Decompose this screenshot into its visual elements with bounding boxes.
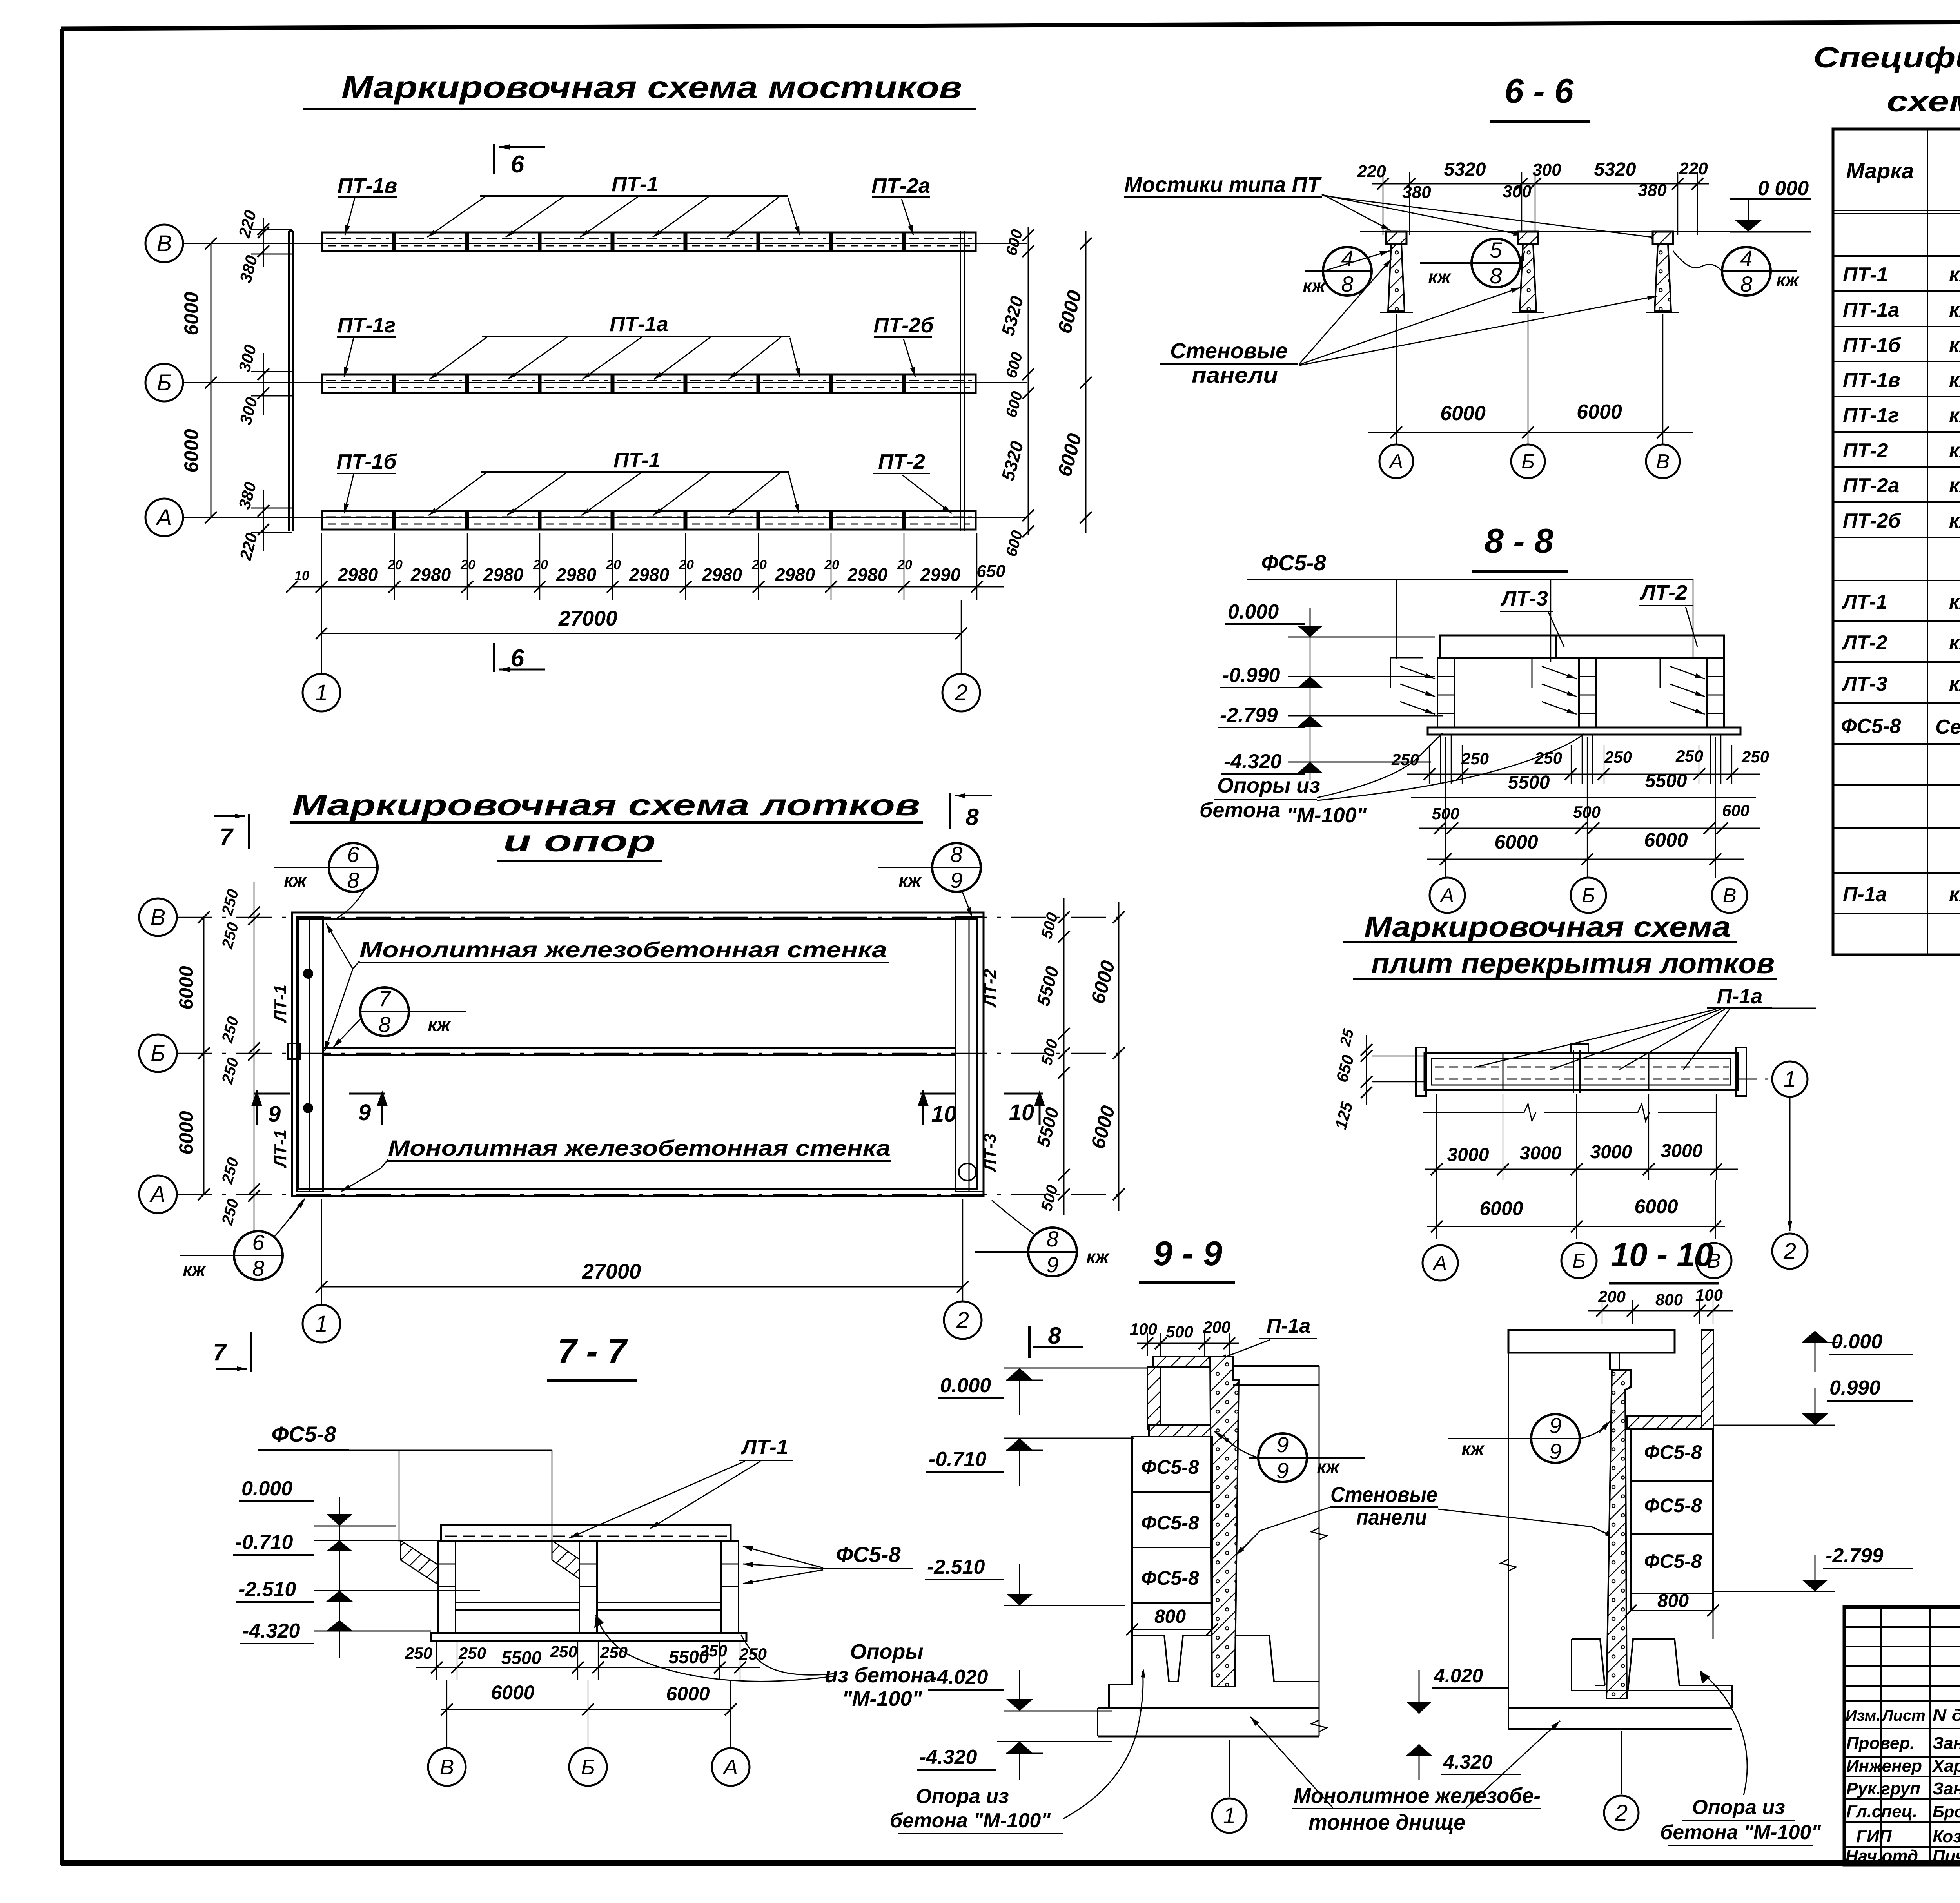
level -0.710 (9-9) bbox=[926, 1438, 1134, 1486]
svg-text:200: 200 bbox=[1598, 1287, 1626, 1306]
svg-text:Б: Б bbox=[1521, 450, 1535, 473]
label Монолитная железобетонная стенка (lower) bbox=[341, 1136, 891, 1192]
svg-text:9: 9 bbox=[268, 1101, 281, 1127]
svg-text:6000: 6000 bbox=[175, 966, 197, 1009]
label П-1а with leaders (plit schema) bbox=[1474, 985, 1816, 1070]
table row ПТ-2 bbox=[1843, 439, 1960, 462]
beams between walls (7-7) bbox=[456, 1602, 721, 1610]
svg-text:ЛТ-1: ЛТ-1 bbox=[740, 1435, 788, 1459]
stepped foundation (9-9) bbox=[1098, 1629, 1319, 1736]
wall on axis Б with ФС5-8 blocks (section 8-8) bbox=[1532, 658, 1596, 727]
grid axis В (mostiki plan) bbox=[145, 225, 1027, 262]
svg-text:ПТ-1а: ПТ-1а bbox=[610, 312, 668, 336]
svg-text:6000: 6000 bbox=[1494, 831, 1538, 853]
svg-text:ЛТ-2: ЛТ-2 bbox=[1639, 581, 1687, 604]
svg-text:380: 380 bbox=[1638, 181, 1667, 200]
dims 100/500/200 (9-9 top) bbox=[1130, 1318, 1239, 1356]
section marks 10-10 (on plan) bbox=[918, 1090, 1045, 1127]
label ПТ-1а (row Б) with leaders bbox=[429, 312, 800, 379]
svg-text:600: 600 bbox=[1722, 801, 1749, 820]
svg-text:6000: 6000 bbox=[175, 1111, 197, 1154]
svg-text:ПТ-2б: ПТ-2б bbox=[1843, 510, 1901, 532]
svg-text:бетона: бетона bbox=[1200, 798, 1280, 822]
wall on axis В (section 7-7) bbox=[438, 1541, 456, 1633]
svg-text:200: 200 bbox=[1203, 1318, 1230, 1336]
grid circles А Б В (plit schema) bbox=[1423, 1245, 1458, 1281]
svg-text:кж: кж bbox=[1776, 270, 1799, 290]
level 0.000 (9-9) bbox=[938, 1368, 1152, 1415]
detail circle 5/8 (middle, section 6-6) bbox=[1420, 238, 1525, 288]
svg-text:кж - 25: кж - 25 bbox=[1949, 404, 1960, 427]
level -0.990 (8-8) bbox=[1220, 664, 1435, 688]
title: Маркировочная схема плит перекрытия лотков bbox=[1343, 911, 1777, 980]
middle dividing wall (lotki plan) bbox=[288, 1043, 955, 1059]
grid circles А Б В (section 8-8) bbox=[1430, 878, 1465, 913]
svg-text:Нач.отд: Нач.отд bbox=[1846, 1847, 1918, 1866]
svg-text:Маркировочная схема: Маркировочная схема bbox=[1364, 911, 1731, 943]
svg-text:Пичахчи: Пичахчи bbox=[1933, 1847, 1960, 1866]
support posts below floor (section 8-8) bbox=[1441, 735, 1721, 784]
svg-text:Опоры: Опоры bbox=[850, 1640, 923, 1664]
dim 27000 (lotki plan bottom) bbox=[316, 1199, 969, 1305]
svg-text:2: 2 bbox=[1615, 1800, 1628, 1826]
svg-text:250: 250 bbox=[600, 1643, 628, 1662]
svg-text:ЛТ-2: ЛТ-2 bbox=[1841, 631, 1887, 654]
plank row at axis Б (ПТ plates) bbox=[322, 374, 976, 393]
label Опоры из бетона М-100 (7-7) bbox=[594, 1615, 935, 1711]
foundation plate (section 7-7) bbox=[431, 1633, 746, 1641]
level 4.320 flag left (10-10) bbox=[1406, 1744, 1521, 1780]
dim row 250 pairs (section 8-8) bbox=[1391, 745, 1769, 784]
svg-text:П-1а: П-1а bbox=[1843, 883, 1887, 906]
dim 300/300 left of row Б bbox=[235, 343, 292, 426]
svg-text:500: 500 bbox=[1166, 1322, 1193, 1341]
column axis 1 circle (9-9) bbox=[1212, 1740, 1247, 1833]
svg-text:А: А bbox=[722, 1755, 738, 1779]
hatched wedge middle wall (7-7) bbox=[552, 1540, 579, 1579]
svg-text:100: 100 bbox=[1695, 1286, 1723, 1304]
svg-text:В: В bbox=[1723, 884, 1737, 907]
grid circles А Б В (section 6-6) bbox=[1379, 444, 1413, 478]
wall on axis А with ФС5-8 blocks (section 8-8) bbox=[1390, 658, 1454, 727]
table row ПТ-2а bbox=[1843, 474, 1960, 497]
right wall and lotok bottom (10-10), hatched bbox=[1627, 1330, 1713, 1429]
section mark 6 (top) bbox=[494, 144, 545, 178]
svg-text:тонное днище: тонное днище bbox=[1308, 1810, 1465, 1834]
left dims 25/650/125 (plit schema) bbox=[1331, 1027, 1425, 1131]
label ПТ-1в with leader bbox=[338, 174, 397, 235]
svg-text:ПТ-1г: ПТ-1г bbox=[1843, 404, 1899, 427]
label Стеновые панели with leaders (section 6-6) bbox=[1160, 259, 1657, 387]
revision header row bbox=[1846, 1706, 1960, 1724]
svg-text:2980: 2980 bbox=[556, 564, 597, 585]
svg-text:9: 9 bbox=[1549, 1413, 1561, 1438]
svg-text:800: 800 bbox=[1657, 1591, 1689, 1611]
dim 6000/6000 (far right of plan) bbox=[1053, 231, 1092, 533]
svg-text:8: 8 bbox=[252, 1256, 264, 1281]
svg-text:10: 10 bbox=[1009, 1100, 1034, 1125]
svg-text:250: 250 bbox=[699, 1642, 727, 1660]
detail circle 7/8 (middle wall detail) bbox=[333, 986, 466, 1047]
title block revision grid (left) bbox=[1844, 1607, 1960, 1865]
svg-text:ПТ-1в: ПТ-1в bbox=[1843, 369, 1900, 392]
dim 3000×4 (plit schema) bbox=[1425, 1094, 1738, 1180]
svg-text:6000: 6000 bbox=[180, 292, 202, 335]
svg-text:ПТ-2: ПТ-2 bbox=[1843, 439, 1888, 462]
svg-text:7: 7 bbox=[220, 824, 234, 850]
svg-text:300: 300 bbox=[1503, 182, 1532, 201]
end wall left (mostiki plan) bbox=[289, 231, 293, 531]
label ПТ-2а with leader bbox=[871, 174, 930, 235]
level -0.710 (7-7) bbox=[233, 1531, 439, 1555]
svg-text:панели: панели bbox=[1192, 363, 1278, 387]
svg-text:27000: 27000 bbox=[558, 607, 617, 630]
signature rows bbox=[1846, 1734, 1960, 1866]
svg-text:ФС5-8: ФС5-8 bbox=[1644, 1550, 1702, 1572]
svg-text:-2.799: -2.799 bbox=[1826, 1544, 1884, 1567]
ЛТ-2 / ЛТ-3 lotok panels right wall bbox=[955, 917, 1000, 1192]
svg-text:2: 2 bbox=[955, 680, 967, 706]
svg-text:5500: 5500 bbox=[1508, 772, 1550, 793]
svg-text:2980: 2980 bbox=[483, 564, 524, 585]
svg-text:N докум.: N докум. bbox=[1933, 1706, 1960, 1724]
svg-text:ЛТ-1: ЛТ-1 bbox=[271, 1130, 290, 1168]
svg-text:Инженер: Инженер bbox=[1846, 1756, 1922, 1776]
svg-text:1: 1 bbox=[315, 1311, 328, 1337]
svg-text:-2.510: -2.510 bbox=[927, 1556, 985, 1578]
svg-text:3000: 3000 bbox=[1520, 1143, 1562, 1164]
svg-text:0.990: 0.990 bbox=[1829, 1377, 1880, 1399]
svg-text:2980: 2980 bbox=[410, 564, 451, 585]
detail circle 4/8 (left, section 6-6) bbox=[1303, 246, 1390, 296]
svg-text:0.000: 0.000 bbox=[1831, 1330, 1882, 1353]
top slab ЛТ-1 (section 7-7) bbox=[441, 1525, 731, 1541]
svg-text:-0.990: -0.990 bbox=[1222, 664, 1280, 687]
svg-text:10: 10 bbox=[931, 1101, 957, 1127]
svg-text:8: 8 bbox=[1046, 1226, 1058, 1251]
svg-text:В: В bbox=[1656, 450, 1670, 473]
svg-text:-4.320: -4.320 bbox=[242, 1620, 300, 1642]
section title 6-6 bbox=[1490, 71, 1590, 122]
level -4.320 (9-9) bbox=[917, 1742, 1112, 1780]
svg-text:ФС5-8: ФС5-8 bbox=[271, 1422, 336, 1446]
left dims 250/250 (lotki plan) bbox=[218, 882, 260, 1231]
svg-text:кж: кж bbox=[1461, 1439, 1485, 1459]
left edge line with break (10-10) bbox=[1501, 1353, 1516, 1708]
svg-text:9: 9 bbox=[1276, 1458, 1289, 1483]
column axis 2 circle (mostiki plan) bbox=[942, 600, 980, 711]
svg-text:панели: панели bbox=[1356, 1505, 1427, 1529]
svg-text:20: 20 bbox=[679, 557, 694, 572]
svg-text:7 - 7: 7 - 7 bbox=[557, 1332, 628, 1371]
svg-text:6: 6 bbox=[511, 151, 524, 178]
svg-text:ГИП: ГИП bbox=[1856, 1827, 1892, 1846]
svg-text:9: 9 bbox=[358, 1100, 371, 1125]
svg-text:А: А bbox=[1439, 884, 1454, 907]
level mark 0.000 (section 6-6) bbox=[1730, 177, 1811, 232]
svg-text:ФС5-8: ФС5-8 bbox=[1141, 1456, 1199, 1478]
wall edge lines right (9-9) bbox=[1233, 1366, 1327, 1736]
ФС5-8 block stack (10-10) bbox=[1625, 1429, 1719, 1639]
svg-text:5500: 5500 bbox=[501, 1647, 542, 1668]
label ПТ-1 (row А) with leaders bbox=[428, 448, 799, 515]
dim 6000/6000 (section 7-7) bbox=[441, 1680, 737, 1748]
level -2.799 (8-8) bbox=[1218, 704, 1443, 727]
svg-text:250: 250 bbox=[1675, 747, 1703, 765]
svg-text:"М-100": "М-100" bbox=[842, 1687, 923, 1711]
svg-text:250: 250 bbox=[1741, 747, 1769, 766]
svg-text:2980: 2980 bbox=[338, 564, 378, 585]
svg-text:П-1а: П-1а bbox=[1717, 985, 1763, 1008]
grid axis А (lotki plan) bbox=[139, 1176, 1129, 1213]
svg-text:из бетона: из бетона bbox=[825, 1664, 935, 1687]
svg-text:20: 20 bbox=[606, 557, 621, 572]
svg-text:5320: 5320 bbox=[1594, 159, 1636, 180]
floor slab (section 8-8) bbox=[1428, 727, 1740, 735]
svg-text:плит перекрытия лотков: плит перекрытия лотков bbox=[1371, 947, 1775, 980]
svg-text:А: А bbox=[1432, 1252, 1447, 1275]
dim 6000 В-Б (left column) bbox=[180, 238, 217, 388]
svg-text:1: 1 bbox=[1223, 1803, 1236, 1829]
svg-text:6000: 6000 bbox=[1644, 829, 1688, 851]
svg-text:Монолитное железобе-: Монолитное железобе- bbox=[1294, 1783, 1541, 1808]
svg-text:кж: кж bbox=[1303, 276, 1326, 296]
svg-text:3000: 3000 bbox=[1590, 1142, 1632, 1163]
svg-text:4: 4 bbox=[1740, 246, 1752, 270]
label ФС5-8 right with leader arrows (7-7) bbox=[743, 1542, 913, 1584]
svg-text:250: 250 bbox=[1461, 749, 1489, 768]
svg-text:6000: 6000 bbox=[1479, 1197, 1523, 1219]
lotok channel top (9-9): П-1а plate and walls bbox=[1147, 1357, 1222, 1437]
svg-text:ПТ-2а: ПТ-2а bbox=[1843, 474, 1899, 497]
main wall (9-9), concrete hatched bbox=[1210, 1357, 1239, 1687]
column axis 1 circle (plit schema) bbox=[1738, 1061, 1808, 1097]
svg-text:220: 220 bbox=[1357, 162, 1386, 181]
svg-text:схемам расположенным на л: схемам расположенным на листе bbox=[1887, 85, 1960, 118]
svg-text:ФС5-8: ФС5-8 bbox=[1261, 550, 1326, 575]
ground level line (section 6-6) bbox=[1360, 231, 1811, 232]
svg-text:ПТ-2а: ПТ-2а bbox=[871, 174, 930, 198]
column axis 2 circle (lotki plan) bbox=[944, 1301, 982, 1339]
svg-text:кж - 25: кж - 25 bbox=[1949, 299, 1960, 321]
svg-text:бетона "М-100": бетона "М-100" bbox=[890, 1809, 1051, 1832]
level -2.510 (7-7) bbox=[236, 1578, 480, 1602]
label ПТ-1б with leader bbox=[336, 450, 397, 513]
svg-text:380: 380 bbox=[1402, 183, 1431, 202]
svg-text:кж - 25: кж - 25 bbox=[1949, 263, 1960, 286]
svg-text:-2.510: -2.510 bbox=[238, 1578, 296, 1601]
svg-text:8: 8 bbox=[1341, 272, 1353, 296]
svg-text:ПТ-1: ПТ-1 bbox=[1843, 263, 1888, 286]
detail circle 9/9 with кж (10-10) bbox=[1448, 1413, 1610, 1464]
svg-text:9: 9 bbox=[1276, 1432, 1289, 1457]
grid axis Б (mostiki plan) bbox=[145, 364, 1027, 401]
svg-text:ЛТ-1: ЛТ-1 bbox=[1841, 591, 1887, 613]
svg-text:250: 250 bbox=[405, 1644, 432, 1662]
label Мостики типа ПТ with leaders bbox=[1124, 172, 1661, 239]
svg-text:ПТ-1а: ПТ-1а bbox=[1843, 299, 1899, 321]
end wall right (mostiki plan) bbox=[960, 231, 964, 531]
svg-text:300: 300 bbox=[1532, 160, 1561, 180]
table row ФС5-8 bbox=[1841, 704, 1960, 744]
svg-text:ПТ-1в: ПТ-1в bbox=[338, 174, 397, 198]
section mark 8 (bottom) bbox=[1029, 1322, 1083, 1358]
svg-text:20: 20 bbox=[824, 557, 839, 572]
table row ПТ-1б bbox=[1843, 334, 1960, 357]
label Опоры из бетона М-100 (section 8-8) bbox=[1200, 733, 1584, 827]
svg-text:кж - 25: кж - 25 bbox=[1949, 334, 1960, 357]
wall on axis В with ФС5-8 blocks (section 8-8) bbox=[1660, 658, 1724, 727]
svg-text:8: 8 bbox=[1490, 263, 1502, 288]
svg-text:6000: 6000 bbox=[1440, 402, 1486, 425]
svg-text:6: 6 bbox=[347, 842, 359, 867]
svg-text:ПТ-1б: ПТ-1б bbox=[336, 450, 397, 473]
svg-text:3000: 3000 bbox=[1661, 1141, 1703, 1161]
svg-text:бетона "М-100": бетона "М-100" bbox=[1660, 1821, 1821, 1844]
svg-text:100: 100 bbox=[1130, 1320, 1157, 1338]
svg-text:8: 8 bbox=[950, 842, 962, 867]
table row ЛТ-2 bbox=[1841, 631, 1960, 654]
dim 6000/6000 (section 8-8) bbox=[1427, 737, 1744, 878]
svg-text:Б: Б bbox=[581, 1755, 595, 1779]
svg-text:6 - 6: 6 - 6 bbox=[1504, 71, 1574, 110]
svg-text:-2.799: -2.799 bbox=[1220, 704, 1278, 727]
svg-text:ФС5-8: ФС5-8 bbox=[1141, 1512, 1199, 1534]
table headers bbox=[1846, 156, 1960, 183]
label ФС5-8 with leaders (7-7 left) bbox=[258, 1422, 552, 1542]
svg-text:ПТ-1б: ПТ-1б bbox=[1843, 334, 1901, 357]
svg-text:кж - 27: кж - 27 bbox=[1949, 631, 1960, 654]
table row ПТ-1г bbox=[1843, 404, 1960, 427]
svg-text:Опора из: Опора из bbox=[916, 1785, 1009, 1808]
svg-text:2980: 2980 bbox=[629, 564, 670, 585]
svg-text:4.320: 4.320 bbox=[1443, 1751, 1492, 1773]
svg-text:20: 20 bbox=[751, 557, 767, 572]
section mark 8 (top) bbox=[950, 793, 992, 830]
dim 500s (section 8-8) bbox=[1419, 801, 1760, 834]
svg-text:кж: кж bbox=[898, 870, 922, 891]
svg-text:ЛТ-3: ЛТ-3 bbox=[1841, 673, 1887, 695]
label Стеновые панели (между 9-9 и 10-10) bbox=[1236, 1482, 1615, 1555]
svg-text:-4.320: -4.320 bbox=[919, 1746, 977, 1769]
level -4.320 (8-8) bbox=[1221, 608, 1431, 780]
svg-text:2: 2 bbox=[956, 1308, 969, 1333]
svg-text:Б: Б bbox=[151, 1041, 165, 1066]
svg-text:кж - 25: кж - 25 bbox=[1949, 369, 1960, 392]
svg-text:Гл.спец.: Гл.спец. bbox=[1846, 1802, 1917, 1821]
svg-text:-4.020: -4.020 bbox=[930, 1666, 988, 1689]
detail circle 9/9 with кж (9-9) bbox=[1214, 1431, 1365, 1483]
svg-text:250: 250 bbox=[458, 1644, 486, 1662]
svg-text:ПТ-2б: ПТ-2б bbox=[873, 314, 934, 337]
svg-text:Опора из: Опора из bbox=[1692, 1796, 1785, 1819]
svg-text:20: 20 bbox=[533, 557, 548, 572]
specification table grid bbox=[1833, 129, 1960, 955]
table row ЛТ-1 bbox=[1841, 591, 1960, 613]
svg-text:А: А bbox=[156, 505, 172, 530]
svg-text:Козловская: Козловская bbox=[1933, 1827, 1960, 1846]
detail circle 8/9 (bottom-right, lotki plan) bbox=[975, 1200, 1110, 1277]
dim 220/380 left of row В bbox=[235, 208, 292, 285]
svg-text:ФС5-8: ФС5-8 bbox=[1644, 1495, 1702, 1517]
svg-text:2: 2 bbox=[1783, 1239, 1796, 1264]
svg-text:1: 1 bbox=[315, 680, 328, 706]
svg-text:кж: кж bbox=[183, 1259, 206, 1280]
stepped foundation (10-10) bbox=[1508, 1639, 1732, 1729]
svg-text:800: 800 bbox=[1154, 1606, 1186, 1627]
dim chain 2980×8 + 2990 + 650 (bottom of mostiki plan) bbox=[286, 533, 1005, 600]
svg-text:2980: 2980 bbox=[847, 564, 888, 585]
section mark 7 (left of 7-7) bbox=[213, 1332, 251, 1372]
svg-text:ЛТ-2: ЛТ-2 bbox=[980, 969, 1000, 1008]
svg-text:В: В bbox=[151, 905, 166, 930]
plank row at axis В (ПТ plates) bbox=[322, 232, 976, 251]
label Опора из бетона М-100 (9-9 bottom left) bbox=[890, 1669, 1145, 1834]
svg-text:250: 250 bbox=[1391, 750, 1419, 769]
label ПТ-1 (row В) with leaders bbox=[427, 172, 800, 237]
plank row at axis А (ПТ plates) bbox=[322, 511, 976, 530]
tank outer walls (lotki plan) bbox=[292, 912, 984, 1196]
svg-text:27000: 27000 bbox=[582, 1260, 641, 1283]
svg-text:"М-100": "М-100" bbox=[1287, 804, 1367, 827]
table row ПТ-2б bbox=[1843, 510, 1960, 532]
level 0.000 (8-8) bbox=[1225, 600, 1435, 637]
svg-text:Зантберг: Зантберг bbox=[1933, 1734, 1960, 1753]
ФС5-8 block stack (9-9) bbox=[1126, 1437, 1218, 1635]
svg-text:Марка: Марка bbox=[1846, 158, 1914, 183]
svg-text:кж: кж bbox=[284, 870, 307, 891]
svg-text:0.000: 0.000 bbox=[241, 1477, 292, 1500]
svg-text:кж - 27: кж - 27 bbox=[1949, 883, 1960, 906]
svg-text:ПТ-1г: ПТ-1г bbox=[338, 314, 396, 337]
svg-text:П-1а: П-1а bbox=[1267, 1315, 1311, 1337]
svg-text:8: 8 bbox=[965, 804, 979, 830]
svg-text:Изм.: Изм. bbox=[1846, 1707, 1880, 1724]
svg-text:Брославский: Брославский bbox=[1933, 1802, 1960, 1821]
top slab with ЛТ-3 / ЛТ-2 labels (section 8-8) bbox=[1440, 581, 1724, 658]
dim row 250 pairs + 5500 (section 7-7) bbox=[405, 1642, 767, 1680]
svg-text:ПТ-2: ПТ-2 bbox=[878, 450, 925, 473]
svg-text:ЛТ-3: ЛТ-3 bbox=[1500, 587, 1548, 610]
svg-text:кж - 26: кж - 26 bbox=[1949, 510, 1960, 532]
svg-text:7: 7 bbox=[213, 1339, 227, 1365]
level 0.000 (7-7) bbox=[239, 1477, 396, 1526]
svg-text:В: В bbox=[157, 231, 172, 256]
svg-text:9: 9 bbox=[950, 868, 962, 893]
svg-text:8: 8 bbox=[1048, 1322, 1061, 1349]
column axis 2 circle (10-10) bbox=[1604, 1731, 1639, 1830]
svg-text:Опоры из: Опоры из bbox=[1217, 774, 1320, 797]
section title 7-7 bbox=[547, 1332, 637, 1381]
svg-text:250: 250 bbox=[739, 1645, 767, 1663]
svg-text:ФС5-8: ФС5-8 bbox=[1644, 1441, 1702, 1463]
section marks 9-9 (on plan) bbox=[251, 1090, 388, 1127]
label ПТ-1г with leader bbox=[337, 314, 396, 377]
svg-text:В: В bbox=[440, 1755, 454, 1779]
title: Маркировочная схема лотков и опор bbox=[290, 789, 923, 861]
svg-text:10 - 10: 10 - 10 bbox=[1611, 1236, 1713, 1273]
label Монолитное железобетонное днище bbox=[1250, 1717, 1560, 1834]
svg-text:20: 20 bbox=[387, 557, 403, 572]
dim 6000 Б-А (left column) bbox=[180, 383, 217, 523]
svg-text:Монолитная железобетонная: Монолитная железобетонная стенка bbox=[359, 937, 887, 962]
svg-text:Провер.: Провер. bbox=[1846, 1734, 1915, 1753]
svg-text:8: 8 bbox=[347, 868, 359, 893]
svg-text:2980: 2980 bbox=[775, 564, 815, 585]
dim 6000 В-Б (lotki plan left) bbox=[175, 911, 210, 1200]
svg-text:Маркировочная схема мостиков: Маркировочная схема мостиков bbox=[341, 70, 962, 105]
svg-text:4: 4 bbox=[1341, 246, 1353, 270]
